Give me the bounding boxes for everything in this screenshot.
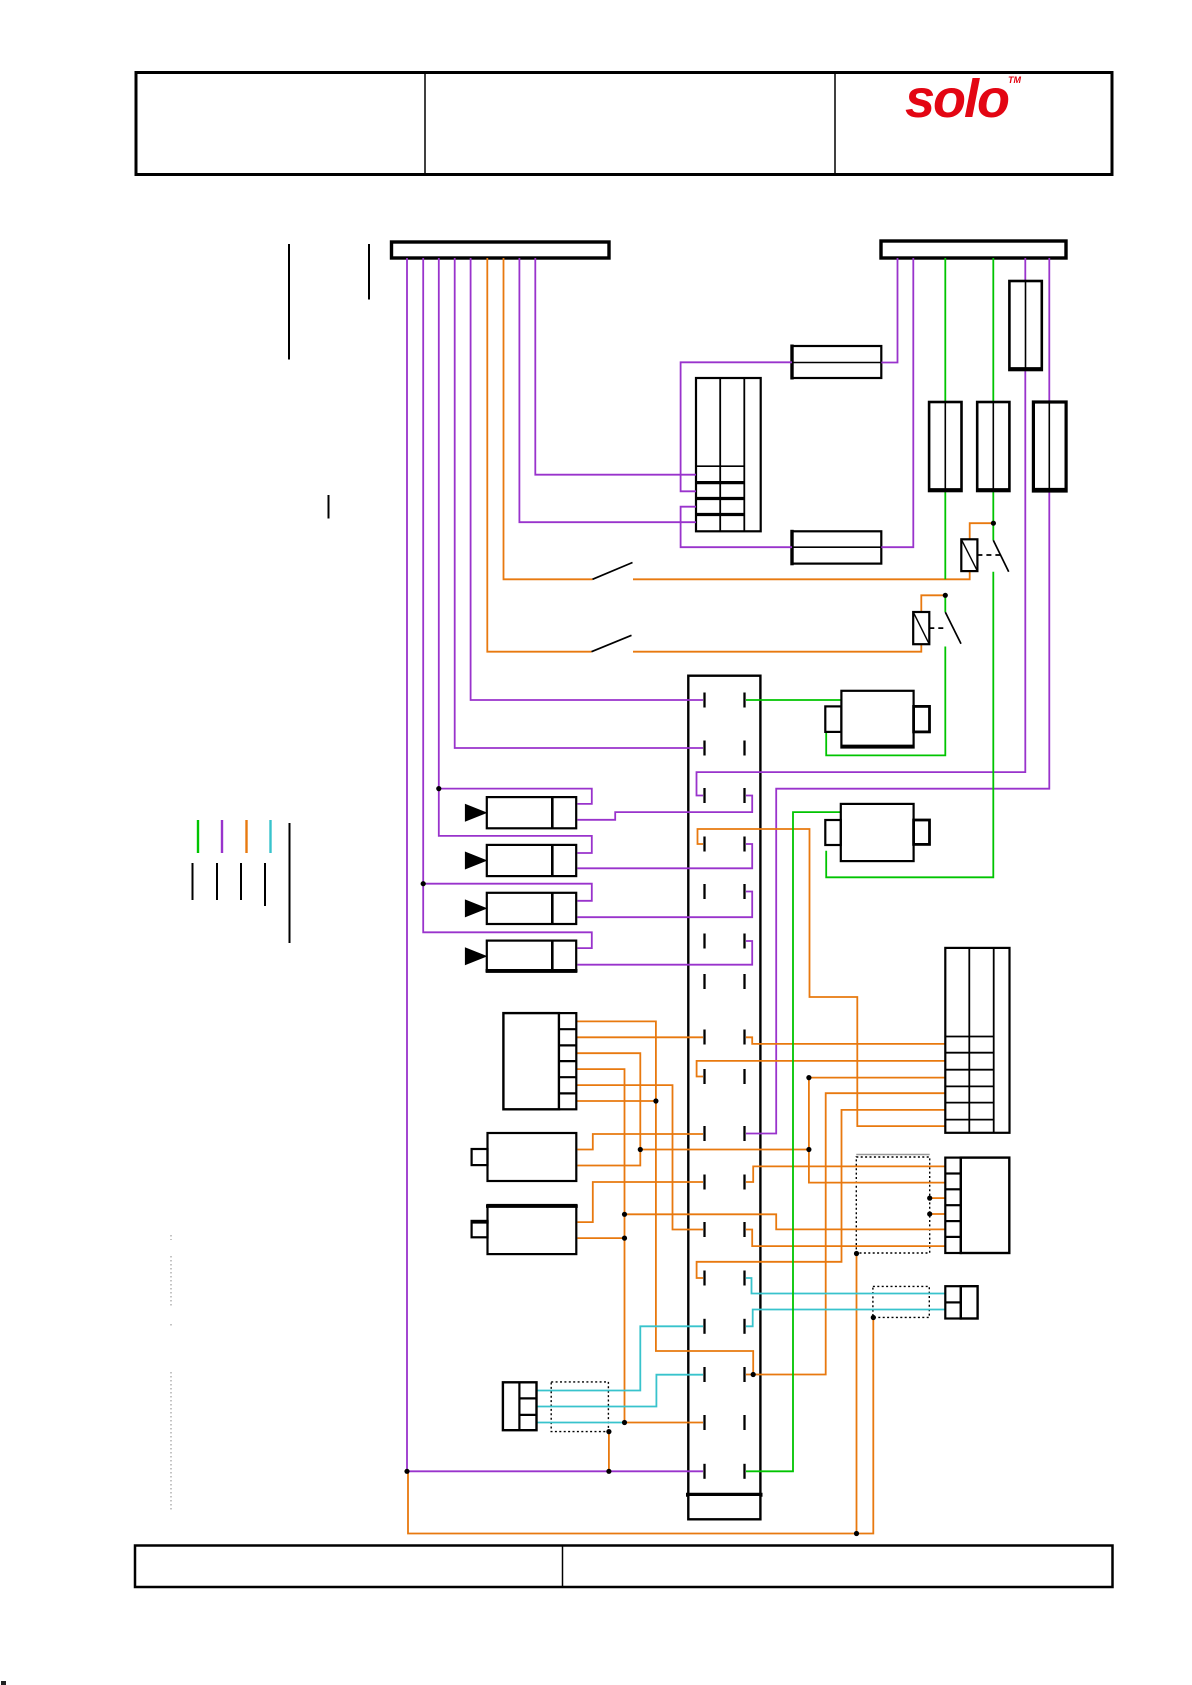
connector X1 pin 7 left tick: [703, 974, 705, 989]
page corner artifact: [1, 1681, 6, 1685]
fuse F3: [977, 402, 1009, 491]
connector X1 bottom cell: [688, 1495, 760, 1520]
footer divider: [562, 1546, 564, 1588]
junction D3 drop top: [606, 1429, 611, 1434]
faint dotted divider segment 2: [170, 1372, 172, 1510]
wire green F2 node to contact lever: [944, 595, 946, 612]
connector X1 pin 16 left tick: [703, 1415, 705, 1430]
junction orange fusebox cell3: [806, 1075, 811, 1080]
wire purple contact strip bottom to K1 row3: [681, 507, 792, 548]
fuse box F5: [945, 948, 1009, 1133]
connector X1 pin 14 left tick: [703, 1319, 705, 1334]
connector X3: [945, 1286, 961, 1318]
wire orange X1 pin8 right to fusebox cell1: [746, 1037, 945, 1044]
wire purple branch lamp1: [439, 789, 592, 804]
wire purple bus4 lamp feed 3-4: [423, 258, 592, 948]
wire orange bus9 to switch S2: [487, 258, 591, 652]
dashed enclosure D2: [873, 1286, 929, 1317]
wire orange fusebox cell3 to trunk: [809, 1078, 945, 1150]
wire orange D1 stub cell3: [930, 1197, 946, 1199]
wire orange trunk to D1 cell2: [640, 1150, 945, 1183]
wire orange relay coil K3 top to green node: [921, 595, 945, 612]
dashed enclosure D1: [856, 1154, 929, 1156]
title block divider 2 (logo cell): [834, 73, 836, 175]
connector X1 pin 13 right tick: [743, 1271, 745, 1286]
junction green1/orange: [943, 593, 948, 598]
relay K3 contact lever: [945, 612, 961, 644]
wire cyan X1 pin14 right to D2 cell2: [746, 1310, 945, 1327]
connector X1 pin 11 left tick: [703, 1175, 705, 1190]
connector X1 pin 16 right tick: [743, 1415, 745, 1430]
wire purple lamp2 out to X1 pin4 right: [577, 844, 752, 868]
connector X1 pin 9 right tick: [743, 1069, 745, 1084]
lamp E3: [487, 893, 576, 924]
wire green F3 feed lower to motor M2: [826, 572, 993, 878]
wire orange trunk branch to D1 cell5: [625, 1214, 946, 1229]
wire orange switch S1 to relay coil K2: [633, 571, 970, 579]
junction orange X1 pin15 right: [751, 1372, 756, 1377]
wire orange control unit pin6 stub: [576, 1100, 656, 1102]
wire cyan X1 pin13 right to D2 cell1: [746, 1278, 945, 1294]
wire orange D1 drop: [856, 1254, 858, 1534]
connector X1 pin 1 right tick: [743, 693, 745, 708]
wire purple bus1 to X1 pin1: [471, 258, 703, 700]
junction orange motor M4: [622, 1236, 627, 1241]
wire orange control unit pin4 trunk down: [576, 1069, 703, 1422]
legend black tick 1: [192, 863, 194, 900]
junction D2 corner drop: [871, 1315, 876, 1320]
black reference line 1: [288, 244, 290, 360]
legend black long line: [289, 823, 291, 943]
wire green F2 feed lower to motor M1: [826, 647, 945, 756]
connector X1 pin 9 left tick: [703, 1069, 705, 1084]
connector X1 pin 4 right tick: [743, 837, 745, 852]
junction D1 stub cell3: [927, 1196, 932, 1201]
motor M2: [841, 804, 914, 861]
connector X1 pin 1 left tick: [703, 693, 705, 708]
legend orange wire sample: [245, 820, 247, 853]
wire purple branch lamp3: [423, 884, 592, 901]
connector X1 body: [688, 676, 760, 1495]
connector X1 pin 5 left tick: [703, 884, 705, 899]
wire orange motor M3 to X1 pin10: [578, 1134, 704, 1150]
wire purple bus5 to X1 pin17 bottom rail: [407, 258, 703, 1471]
wire purple lamp1 out to X1 pin3 right: [577, 796, 752, 820]
wire orange X1 pin4 left loop to fusebox cell6: [698, 829, 946, 1126]
connector X1 pin 10 right tick: [743, 1126, 745, 1141]
connector X1 bottom divider: [686, 1493, 763, 1497]
wire green bus F2 feed upper: [944, 258, 946, 579]
legend green wire sample: [197, 820, 199, 853]
wire purple fused feed F1 to X1 pin3: [697, 258, 1026, 796]
junction D3 drop bottom: [606, 1469, 611, 1474]
wire green X1 pin1 right to motor M1: [746, 699, 841, 701]
wire purple bus6 to relay K1 row4: [519, 258, 696, 522]
faint dotted divider segment 1: [170, 1256, 172, 1307]
relay contact strip top: [792, 346, 881, 378]
wire purple bus2 to X1 pin2: [455, 258, 703, 748]
faint dotted divider tick: [170, 1324, 172, 1328]
connector X1 pin 2 right tick: [743, 741, 745, 756]
fuse F2: [929, 402, 961, 491]
connector X1 pin 12 left tick: [703, 1222, 705, 1237]
wire orange D1 stub cell4: [930, 1213, 946, 1215]
wire green bus F3 feed upper: [992, 258, 994, 540]
connector X2: [945, 1158, 961, 1253]
black reference line 3: [328, 495, 330, 519]
connector X1 pin 11 right tick: [743, 1175, 745, 1190]
wire green motor M2 to X1 pin17 right: [746, 812, 841, 1471]
faint dotted divider segment 0: [170, 1235, 172, 1240]
junction orange trunk left: [638, 1147, 643, 1152]
wire purple fused feed F4 to X1 pin10: [746, 258, 1049, 1134]
junction purple lamp1 branch: [436, 786, 441, 791]
connector X1 pin 3 left tick: [703, 788, 705, 803]
relay K2 contact lever: [993, 540, 1008, 572]
legend purple wire sample: [221, 820, 223, 853]
legend cyan wire sample: [269, 820, 271, 853]
wire orange relay coil K2 top to green node: [970, 523, 994, 539]
relay K3 actuator dashed link: [929, 627, 945, 629]
connector X1 pin 15 left tick: [703, 1367, 705, 1382]
connector X1 pin 13 left tick: [703, 1271, 705, 1286]
wire purple right bus to contact strip bottom: [881, 258, 913, 547]
relay coil K3: [913, 612, 929, 644]
legend black tick 3: [240, 863, 242, 900]
wire cyan sensor cell2 to X1 pin15: [537, 1375, 704, 1407]
connector X1 pin 8 left tick: [703, 1030, 705, 1045]
connector X1 pin 12 right tick: [743, 1222, 745, 1237]
motor M3: [488, 1133, 577, 1181]
connector X1 pin 17 right tick: [743, 1464, 745, 1479]
wire purple right bus to contact strip top: [881, 258, 897, 363]
switch S1 lever: [593, 563, 633, 580]
control unit A1: [503, 1013, 559, 1109]
dashed enclosure D3: [551, 1382, 608, 1432]
junction orange ground rail: [854, 1531, 859, 1536]
fuse F4: [1033, 402, 1066, 491]
relay coil K2: [961, 539, 977, 571]
wire cyan sensor cell1 to X1 pin14: [537, 1326, 704, 1390]
supply bus bar left: [392, 242, 610, 258]
switch S2 lever: [592, 635, 632, 651]
relay K2 actuator dashed link: [977, 554, 1000, 556]
wire orange X1 pin11 right to D1 cell1: [746, 1166, 945, 1182]
wire purple bus3 lamp feed 1-2: [439, 258, 592, 853]
wire orange X1 pin12 right to D1 cell6: [746, 1230, 945, 1247]
connector X1 pin 2 left tick: [703, 741, 705, 756]
wire orange control unit pin2 to X1 pin8: [576, 1036, 703, 1038]
junction green2/orange: [991, 521, 996, 526]
black reference line 2: [368, 244, 370, 300]
wire purple lamp3 out to X1 pin5 right: [577, 892, 752, 918]
wire orange control unit pin3 riser: [576, 1053, 640, 1165]
wire orange control unit pin5 to X1 pin12: [576, 1085, 703, 1229]
junction D1 stub cell4: [927, 1211, 932, 1216]
wire orange bus8 to switch S1: [504, 258, 593, 579]
lamp E2: [487, 845, 576, 876]
relay contact strip bottom: [792, 531, 881, 563]
wire orange ground rail bottom: [408, 1318, 873, 1534]
junction D1 corner drop: [854, 1251, 859, 1256]
wire orange motor M4 to X1 pin11: [578, 1182, 704, 1222]
connector X1 pin 17 left tick: [703, 1464, 705, 1479]
legend black tick 4: [264, 863, 266, 906]
connector X1 pin 14 right tick: [743, 1319, 745, 1334]
wire orange motor M4 lower to trunk: [578, 1237, 625, 1239]
wire orange control unit pin1/pin6 riser: [576, 1021, 753, 1374]
junction cyan/orange trunk: [622, 1420, 627, 1425]
wire purple contact strip top to K1 row2: [681, 362, 792, 491]
junction purple/orange ground rail: [404, 1469, 409, 1474]
title block divider 1: [424, 73, 426, 175]
wire orange D3 drop to rail: [608, 1432, 610, 1472]
junction control unit pin6/riser: [653, 1098, 658, 1103]
connector X1 pin 7 right tick: [743, 974, 745, 989]
supply bus bar right: [881, 241, 1066, 258]
wire cyan sensor cell3 to orange trunk: [537, 1422, 625, 1424]
junction purple lamp3 branch: [421, 881, 426, 886]
motor M4: [488, 1205, 577, 1254]
title block frame: [136, 73, 1112, 175]
connector X1 pin 6 left tick: [703, 934, 705, 949]
fuse F1: [1009, 281, 1041, 370]
sensor block B1: [503, 1382, 537, 1430]
connector X1 pin 6 right tick: [743, 934, 745, 949]
legend black tick 2: [216, 863, 218, 900]
connector X1 pin 8 right tick: [743, 1030, 745, 1045]
connector X1 pin 15 right tick: [743, 1367, 745, 1382]
connector X1 pin 4 left tick: [703, 837, 705, 852]
junction orange trunk right: [806, 1147, 811, 1152]
connector X1 pin 10 left tick: [703, 1126, 705, 1141]
lamp E1: [487, 797, 576, 828]
relay block K1: [696, 378, 761, 531]
wire orange X1 pin15 right to fusebox cell4: [753, 1093, 945, 1374]
wire purple bus7 to relay K1 row1: [535, 258, 696, 475]
footer title bar frame: [135, 1546, 1113, 1588]
wire orange fusebox cell2 to X1 pin9: [697, 1061, 946, 1077]
wire purple lamp4 out to X1 pin6 right: [577, 941, 752, 965]
connector X1 pin 3 right tick: [743, 788, 745, 803]
wire orange fusebox cell5 to X1 crossing: [697, 1110, 946, 1278]
solo logo: [905, 68, 1021, 130]
junction orange D1cell5 branch: [622, 1212, 627, 1217]
motor M1: [841, 691, 913, 748]
lamp E4: [487, 941, 576, 972]
wire orange switch S2 to relay coil K3: [633, 644, 921, 652]
connector X1 pin 5 right tick: [743, 884, 745, 899]
